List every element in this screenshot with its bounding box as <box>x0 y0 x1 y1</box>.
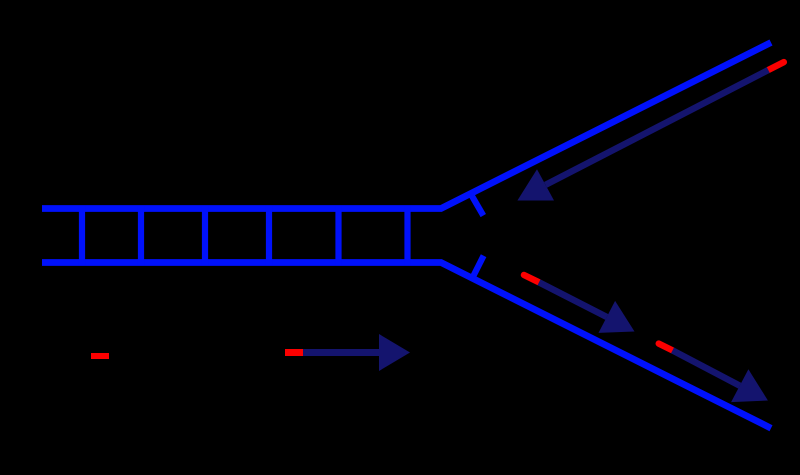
bottom parental strand <box>42 263 771 429</box>
Okazaki fragment 1 RNA primer <box>524 275 539 282</box>
Okazaki fragment 2 RNA primer <box>659 344 673 351</box>
leading strand RNA primer (red tip, upper right) <box>768 62 784 70</box>
Okazaki fragment 1 arrowhead <box>599 301 635 333</box>
Okazaki fragment 2 arrowhead <box>731 369 768 402</box>
rung 1 <box>79 206 85 266</box>
top parental strand <box>42 43 771 209</box>
rung 6 <box>404 206 410 266</box>
leading strand arrowhead (points toward fork) <box>517 169 554 200</box>
leading strand new DNA shaft <box>546 70 769 185</box>
rung 3 <box>202 206 208 266</box>
broken base-pair tick on upper fork strand <box>471 194 483 215</box>
broken base-pair tick on lower fork strand <box>473 256 484 277</box>
legend: new DNA arrowhead <box>379 334 410 371</box>
legend: RNA primer swatch <box>91 353 109 359</box>
Okazaki fragment 2 DNA shaft <box>673 350 740 385</box>
rung 4 <box>266 206 272 266</box>
legend: new DNA arrow shaft <box>303 349 379 356</box>
rung 5 <box>335 206 341 266</box>
rung 2 <box>138 206 144 266</box>
Okazaki fragment 1 DNA shaft <box>539 282 607 317</box>
legend: new DNA arrow red primer segment <box>285 349 303 356</box>
